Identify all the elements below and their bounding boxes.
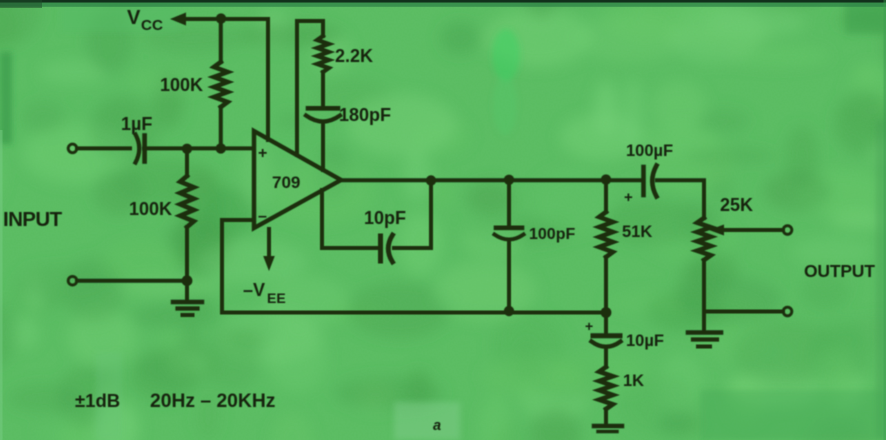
- -Vee arrow: [263, 256, 275, 271]
- junction 100pF node: [504, 175, 514, 185]
- wire compensation bracket: [297, 21, 323, 155]
- svg-text:2.2K: 2.2K: [335, 46, 373, 66]
- ground (input): [173, 281, 202, 315]
- svg-text:1µF: 1µF: [121, 114, 152, 134]
- node Vcc rail wire: [183, 17, 268, 21]
- svg-text:100µF: 100µF: [626, 142, 673, 160]
- wire lower output: [704, 310, 783, 314]
- junction at lower 100K top: [182, 144, 192, 154]
- svg-text:OUTPUT: OUTPUT: [804, 261, 875, 281]
- svg-text:51K: 51K: [622, 223, 652, 241]
- ground (1K): [594, 426, 622, 432]
- input terminal (top): [68, 144, 77, 153]
- resistor 100K (upper, Vcc to + input): [214, 19, 228, 148]
- svg-text:+: +: [624, 189, 633, 206]
- capacitor 100uF: [644, 166, 657, 197]
- svg-text:20Hz – 20KHz: 20Hz – 20KHz: [150, 391, 275, 412]
- wire - input to feedback rail: [222, 220, 606, 313]
- svg-text:–V: –V: [243, 280, 265, 300]
- label Vcc: [127, 7, 163, 34]
- svg-text:a: a: [433, 418, 441, 434]
- resistor 51K: [599, 180, 613, 313]
- capacitor 10pF: [381, 235, 393, 262]
- wire Vcc to op-amp V+ pin: [266, 19, 270, 140]
- junction at upper 100K bottom: [216, 143, 226, 153]
- svg-text:INPUT: INPUT: [3, 208, 63, 231]
- capacitor 1uF: [136, 135, 145, 163]
- wire output comp pin to 10pF loop: [322, 190, 377, 248]
- svg-text:10µF: 10µF: [626, 332, 664, 350]
- junction 51K node: [601, 174, 611, 184]
- capacitor 180pF: [306, 108, 340, 170]
- ground (25K pot): [688, 333, 721, 347]
- svg-text:25K: 25K: [720, 195, 753, 215]
- wire 1uF to + input: [144, 146, 254, 150]
- resistor 2.2K: [317, 21, 328, 106]
- resistor 100K (lower, input shunt): [180, 149, 194, 281]
- svg-text:709: 709: [272, 173, 300, 192]
- svg-text:+: +: [258, 145, 267, 162]
- potentiometer 25K: [697, 218, 711, 330]
- junction 100pF bottom: [504, 306, 514, 316]
- svg-text:10pF: 10pF: [364, 208, 406, 228]
- svg-text:–: –: [258, 208, 267, 225]
- svg-text:1K: 1K: [623, 372, 644, 390]
- svg-text:100pF: 100pF: [529, 226, 575, 243]
- capacitor 100pF: [495, 180, 524, 313]
- wire V- supply pin: [267, 229, 271, 258]
- label -Vee: [243, 280, 286, 306]
- svg-text:100K: 100K: [129, 199, 172, 219]
- wire op-amp output rail: [341, 178, 643, 182]
- svg-text:EE: EE: [267, 290, 286, 306]
- wire 10pF to output node: [394, 181, 431, 248]
- svg-text:+: +: [585, 318, 593, 334]
- svg-text:CC: CC: [141, 17, 163, 34]
- svg-text:180pF: 180pF: [339, 105, 391, 125]
- wiper arrow 25K: [709, 225, 783, 236]
- input terminal (bottom): [68, 276, 77, 285]
- svg-text:V: V: [127, 7, 141, 29]
- junction output node: [426, 175, 436, 185]
- capacitor 10uF: [592, 313, 621, 347]
- wire lower input terminal to ground node: [77, 279, 187, 283]
- junction feedback node: [601, 307, 612, 318]
- wire 100uF to 25K pot: [657, 180, 704, 218]
- Vcc arrow: [170, 13, 186, 26]
- wire input terminal to 1uF: [77, 146, 130, 150]
- junction lower input / ground: [182, 275, 193, 286]
- op-amp U1 709: [254, 131, 341, 228]
- resistor 1K: [599, 347, 613, 424]
- svg-text:100K: 100K: [160, 75, 203, 95]
- svg-text:±1dB: ±1dB: [75, 390, 120, 411]
- output terminal (top): [783, 226, 792, 235]
- output terminal (bottom): [783, 307, 792, 316]
- junction on Vcc rail: [216, 13, 226, 23]
